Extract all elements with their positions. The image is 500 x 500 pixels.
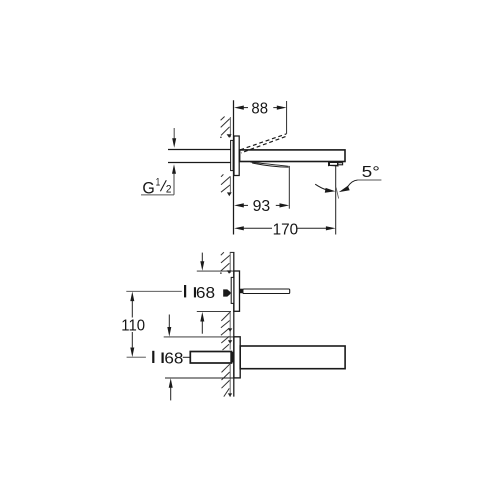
handle base plate (plan) xyxy=(231,277,234,303)
svg-text:68: 68 xyxy=(196,285,215,302)
svg-text:88: 88 xyxy=(251,101,268,118)
in-wall body (side view, behind wall) xyxy=(231,140,234,170)
dimension 68 spout: up arrow xyxy=(169,378,173,400)
black arrow to handle plate xyxy=(223,289,230,296)
handle stem xyxy=(243,289,290,294)
dimension 68 handle: extension lines xyxy=(197,270,234,272)
pipe diameter arrow top xyxy=(172,128,176,148)
dimension 68 handle: up arrow xyxy=(200,312,204,334)
swivel arc 5 deg xyxy=(315,180,358,193)
wall hatch cluster C1 xyxy=(220,252,232,274)
spout raised position (dashed) xyxy=(240,134,286,153)
dimension 68 spout: extension lines xyxy=(164,336,234,338)
wall flange escutcheon (side view) xyxy=(234,136,239,176)
pipe diameter arrow bottom xyxy=(172,164,176,195)
spout body (plan) xyxy=(240,346,345,369)
dimension 68 spout: down arrow xyxy=(167,315,171,337)
wall hatch cluster C2 xyxy=(221,312,232,350)
concealed body black end xyxy=(230,352,233,363)
supply pipe G1/2 nipple xyxy=(168,150,231,163)
water stream / 170 extension line xyxy=(336,166,339,235)
label 5 deg with leader xyxy=(358,164,382,181)
handle axis extension line xyxy=(126,290,182,292)
dimension 93 xyxy=(234,166,289,215)
handle escutcheon (plan) xyxy=(234,271,240,311)
dimension 68 handle: down arrow xyxy=(200,253,204,271)
svg-text:110: 110 xyxy=(121,318,145,335)
wall line (plan view) xyxy=(233,252,235,396)
dimension 88 xyxy=(234,101,287,134)
svg-text:2: 2 xyxy=(166,183,172,195)
label 68 (spout) with bars and leader xyxy=(152,351,190,368)
svg-text:93: 93 xyxy=(253,198,271,215)
label 68 (handle) with bars xyxy=(184,285,215,302)
aerator xyxy=(329,162,343,166)
svg-text:5°: 5° xyxy=(362,164,380,181)
label G 1/2 xyxy=(141,177,174,198)
spout (side view) xyxy=(240,150,345,162)
svg-text:170: 170 xyxy=(273,222,299,239)
dimension 170 xyxy=(234,222,336,239)
wall hatch cluster B (below pipe) xyxy=(221,174,232,196)
handle stem connector (black) xyxy=(240,289,243,294)
wall hatch cluster A (above pipe) xyxy=(220,117,232,139)
wall top cap xyxy=(230,251,235,253)
wall line (side view) xyxy=(233,100,235,234)
concealed in-wall body (plan) xyxy=(190,352,231,364)
spout axis extension line xyxy=(127,356,146,358)
spout escutcheon (plan) xyxy=(234,337,240,378)
dimension 110 xyxy=(121,292,145,358)
svg-text:1: 1 xyxy=(156,177,161,189)
wall hatch cluster C3 xyxy=(222,364,233,397)
svg-text:68: 68 xyxy=(164,351,183,368)
water channel curve (lowered jet sliver) xyxy=(250,162,288,167)
